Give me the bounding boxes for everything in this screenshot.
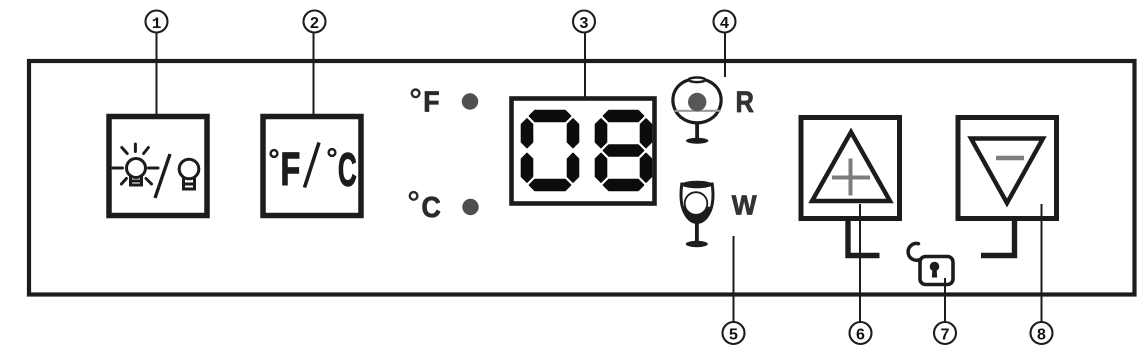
°C indicator label bbox=[410, 192, 418, 200]
svg-text:7: 7 bbox=[941, 327, 950, 344]
button 1 (light) square bbox=[109, 117, 207, 216]
red wine glass icon (R) bbox=[673, 78, 721, 144]
svg-text:W: W bbox=[732, 189, 757, 221]
callout 2 circle bbox=[304, 11, 326, 33]
R label bbox=[736, 85, 754, 118]
°F indicator label bbox=[412, 90, 420, 98]
svg-text:C: C bbox=[422, 191, 441, 223]
callout 4 circle bbox=[714, 11, 736, 33]
leader line 5 bbox=[733, 236, 735, 323]
°F indicator dot bbox=[462, 93, 478, 109]
minus sign bbox=[996, 156, 1024, 160]
callout 5 circle bbox=[723, 322, 745, 344]
C letter in button 2 bbox=[338, 143, 357, 195]
7-segment digit 8 bbox=[596, 111, 652, 191]
leader line 6 bbox=[859, 204, 861, 323]
white wine glass icon (W) bbox=[681, 181, 713, 248]
slash between bulbs bbox=[155, 154, 170, 198]
leader line 4 bbox=[724, 32, 726, 77]
svg-text:6: 6 bbox=[856, 327, 865, 344]
lock icon shackle bbox=[908, 243, 920, 260]
panel border frame bbox=[29, 61, 1135, 295]
button 6 (up / +) square bbox=[801, 118, 900, 219]
svg-text:R: R bbox=[736, 85, 754, 118]
hold-line under button 8 bbox=[981, 220, 1015, 256]
light-off bulb icon bbox=[179, 159, 199, 189]
svg-text:8: 8 bbox=[1037, 327, 1046, 344]
degree symbol of F in button 2 bbox=[271, 150, 278, 157]
7-segment digit 0 bbox=[522, 111, 579, 191]
svg-text:F: F bbox=[281, 144, 301, 195]
down triangle bbox=[971, 139, 1043, 204]
leader line 8 bbox=[1041, 204, 1043, 323]
leader line 7 bbox=[944, 278, 946, 323]
callout 6 circle bbox=[850, 322, 872, 344]
svg-text:C: C bbox=[338, 143, 357, 195]
slash in button 2 bbox=[305, 143, 320, 188]
svg-text:F: F bbox=[423, 85, 439, 117]
lock icon body bbox=[920, 257, 953, 285]
leader line 2 bbox=[313, 32, 315, 131]
plus sign bbox=[832, 159, 870, 196]
svg-text:2: 2 bbox=[310, 15, 319, 32]
svg-text:3: 3 bbox=[580, 15, 589, 32]
leader line 3 bbox=[584, 32, 586, 120]
button 8 (down / -) square bbox=[958, 118, 1057, 219]
svg-text:4: 4 bbox=[720, 15, 729, 32]
W label bbox=[732, 189, 757, 221]
callout 8 circle bbox=[1031, 322, 1053, 344]
light-on bulb icon bbox=[113, 144, 158, 185]
callout 1 circle bbox=[146, 11, 168, 33]
degree symbol of C in button 2 bbox=[329, 149, 336, 156]
F letter in button 2 bbox=[281, 144, 301, 195]
button 2 (°F/°C) square bbox=[263, 117, 361, 216]
callout 3 circle bbox=[573, 11, 595, 33]
hold-line under button 6 bbox=[848, 220, 880, 256]
leader line 1 bbox=[156, 32, 158, 131]
callout 7 circle bbox=[934, 322, 956, 344]
svg-text:5: 5 bbox=[729, 327, 738, 344]
svg-text:1: 1 bbox=[152, 15, 162, 33]
°C indicator dot bbox=[462, 199, 478, 215]
lock keyhole bbox=[930, 262, 940, 272]
display frame bbox=[512, 99, 655, 204]
up triangle bbox=[812, 132, 890, 201]
